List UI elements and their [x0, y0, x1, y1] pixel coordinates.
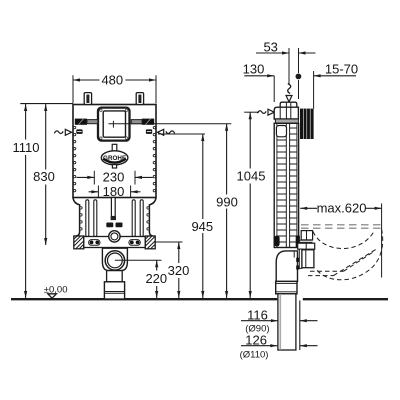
dimension 945	[158, 133, 205, 135]
mounting rail right cap	[145, 236, 155, 249]
corrugation rungs left column	[277, 140, 286, 242]
dimension 1045	[249, 112, 251, 168]
dimension 15-70	[314, 75, 356, 77]
wall anchor arrow right view	[268, 109, 274, 115]
anchor rod left block	[75, 119, 87, 125]
svg-text:220: 220	[145, 271, 167, 286]
extension line 480 left	[72, 75, 74, 103]
supply point dot	[296, 74, 302, 80]
extension line max.620 right	[381, 204, 383, 278]
datum triangle	[48, 294, 57, 298]
corrugation rungs right column	[290, 128, 297, 242]
outlet elbow	[276, 251, 297, 282]
rail slot left	[89, 240, 100, 246]
extension line 1045	[244, 111, 259, 113]
dimension 220	[156, 260, 158, 270]
foot right (black)	[296, 236, 300, 248]
dimension 990	[226, 124, 228, 195]
flush plate inner	[103, 111, 125, 137]
wall anchor arrow left	[65, 129, 71, 135]
dimension 180 ticks	[97, 186, 99, 198]
clamp blocks	[296, 258, 299, 262]
guide tube right outer	[140, 200, 143, 237]
svg-text:126: 126	[245, 332, 267, 347]
plate corner screws	[100, 109, 102, 111]
svg-text:830: 830	[33, 169, 55, 184]
dimension 320	[178, 242, 180, 263]
extension line 480 right	[155, 75, 157, 103]
top post right	[136, 93, 143, 105]
inner wall lines	[276, 123, 278, 247]
dimension 480 arrowheads	[73, 78, 80, 81]
guide tube left outer	[86, 200, 89, 237]
dimension 230 arrows	[77, 176, 95, 178]
fastener right	[146, 129, 152, 134]
bowl inner rim dashed	[313, 231, 375, 249]
dimension 1110 line	[25, 104, 27, 140]
svg-text:945: 945	[191, 219, 213, 234]
ground line right segment	[303, 298, 388, 300]
bowl rim dashed gray lines	[301, 224, 382, 226]
foot left (black)	[274, 236, 279, 247]
edge notch circles left	[73, 126, 75, 191]
outlet pipe	[107, 271, 123, 282]
drain pipe below floor	[278, 294, 296, 350]
svg-text:(Ø110): (Ø110)	[240, 350, 269, 361]
wall anchor arrow right	[157, 129, 163, 135]
guide tube left inner	[94, 200, 97, 237]
bracket below rail	[110, 248, 119, 251]
flush bend housing	[102, 248, 127, 270]
connector block left	[106, 223, 113, 228]
right leg outline	[149, 198, 156, 237]
mounting rail face	[84, 237, 145, 248]
GROHE logo oval	[101, 151, 128, 165]
anchor rod right block	[142, 119, 154, 125]
svg-text:max.620: max.620	[317, 201, 367, 216]
svg-text:180: 180	[103, 184, 125, 199]
svg-text:53: 53	[263, 40, 277, 55]
side view head block	[274, 107, 298, 119]
wall block (hatched)	[300, 109, 314, 139]
svg-text:990: 990	[216, 195, 238, 210]
right extension line for pipe dims	[299, 301, 301, 351]
dimension 130	[244, 75, 274, 77]
center flush tube	[111, 198, 115, 217]
svg-text:1045: 1045	[237, 168, 266, 183]
leg notch circles	[80, 207, 150, 230]
dimension 230 ticks	[93, 171, 95, 185]
extension line 53 left	[288, 48, 290, 84]
upper socket rect	[298, 243, 315, 249]
extension line rail right (320)	[154, 241, 183, 243]
inspection window	[276, 126, 286, 137]
guide tube right inner	[132, 200, 135, 237]
svg-text:130: 130	[243, 61, 265, 76]
flush plate frame	[98, 108, 130, 141]
drain sleeve side view	[276, 281, 297, 293]
bowl socket flange	[299, 249, 302, 268]
svg-text:1110: 1110	[13, 140, 40, 155]
top post left	[84, 93, 91, 105]
GROHE logo stem top	[112, 144, 117, 151]
svg-text:320: 320	[168, 263, 190, 278]
extension line 53 right / supply line	[298, 48, 300, 73]
extension line 15-70	[313, 71, 315, 109]
corrugated body outline	[274, 123, 298, 247]
dimension 180 arrows	[89, 191, 99, 193]
center tube lines	[285, 123, 287, 247]
rail slot right	[129, 240, 140, 246]
side view top box	[280, 102, 297, 107]
dimension 830 line	[45, 104, 47, 170]
extension line top-left (frame top level)	[20, 103, 73, 105]
dimension max.620	[300, 207, 317, 209]
connector block right	[116, 223, 123, 228]
gray top band	[275, 119, 298, 123]
extension line 130 (frame front)	[273, 76, 275, 102]
fastener left	[76, 129, 82, 134]
flush bend outer ring	[105, 251, 124, 270]
upper bowl connector	[301, 231, 312, 240]
svg-text:480: 480	[101, 73, 123, 88]
svg-text:15-70: 15-70	[325, 61, 358, 76]
GROHE logo stem bottom	[112, 165, 116, 168]
right arrows for pipe dims	[300, 320, 318, 322]
frame body outline	[73, 105, 156, 198]
callout line from bend center	[115, 259, 162, 261]
edge notch circles right	[153, 126, 155, 191]
ground line left segment	[11, 298, 277, 300]
anchor rod right shaft	[131, 120, 142, 124]
bowl outer front dashed	[317, 229, 383, 280]
mounting rail left cap	[74, 236, 84, 249]
crosshair and callout line	[109, 123, 232, 125]
flush bend inner ring	[108, 253, 123, 268]
anchor rod left shaft	[87, 120, 98, 124]
svg-text:230: 230	[103, 169, 125, 184]
bowl socket	[302, 250, 314, 268]
left leg outline	[73, 198, 80, 237]
bowl duct dashed lines	[308, 249, 377, 276]
inlet ring	[109, 231, 120, 242]
outlet sleeve	[104, 282, 124, 299]
dimension 480 line	[73, 79, 100, 81]
supply drop arrow	[286, 96, 292, 102]
svg-text:GROHE: GROHE	[103, 155, 126, 162]
dimension 53	[256, 52, 289, 54]
